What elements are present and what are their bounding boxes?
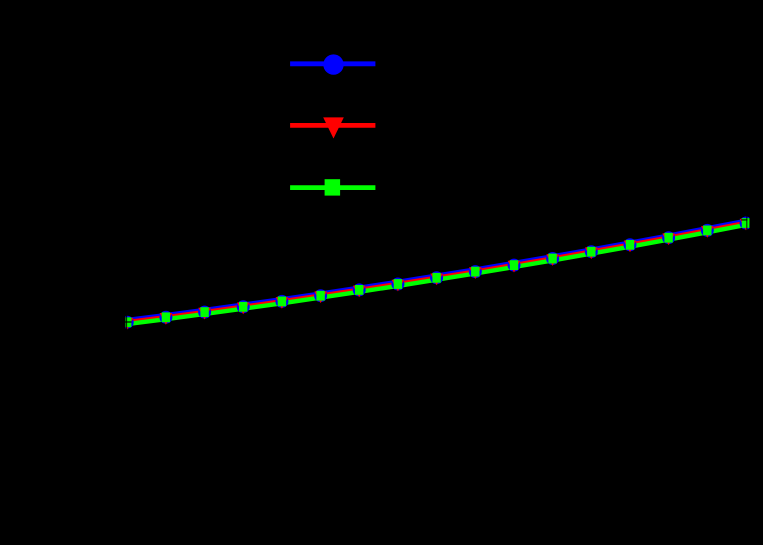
data point 1: red triangle-down marker bbox=[121, 318, 134, 330]
data point 6: green square marker bbox=[316, 291, 324, 301]
data point 6: blue circle marker bbox=[314, 289, 327, 302]
data point 5: green square marker bbox=[278, 297, 286, 307]
right y-axis tick mark bbox=[741, 219, 747, 220]
red data series line bbox=[127, 223, 746, 322]
data point 14: green square marker bbox=[626, 240, 634, 250]
data point 12: red triangle-down marker bbox=[546, 254, 559, 266]
data point 17: green square marker bbox=[742, 218, 750, 228]
data point 3: green square marker bbox=[200, 307, 208, 317]
left y-axis tick mark bbox=[125, 321, 131, 322]
data point 17: blue circle marker bbox=[740, 217, 753, 230]
left axis spine overlay bbox=[125, 310, 128, 332]
data point 7: blue circle marker bbox=[353, 283, 366, 296]
data point 11: blue circle marker bbox=[508, 259, 521, 272]
data point 5: blue circle marker bbox=[275, 295, 288, 308]
data point 11: red triangle-down marker bbox=[508, 261, 521, 273]
data point 9: green square marker bbox=[432, 273, 440, 283]
data point 14: blue circle marker bbox=[624, 238, 637, 251]
data point 1: green square marker bbox=[123, 317, 131, 327]
data point 9: blue circle marker bbox=[430, 271, 443, 284]
data point 7: green square marker bbox=[355, 285, 363, 295]
data point 17: red triangle-down marker bbox=[740, 219, 753, 231]
data point 3: red triangle-down marker bbox=[198, 308, 211, 320]
data point 3: blue circle marker bbox=[198, 306, 211, 319]
data point 7: red triangle-down marker bbox=[353, 286, 366, 298]
data point 2: green square marker bbox=[162, 312, 170, 322]
legend entry 1: blue line bbox=[290, 61, 375, 66]
data point 16: red triangle-down marker bbox=[701, 226, 714, 238]
data point 8: red triangle-down marker bbox=[392, 280, 405, 292]
data point 15: green square marker bbox=[664, 233, 672, 243]
legend entry 2: red line bbox=[290, 123, 375, 128]
data point 15: blue circle marker bbox=[662, 231, 675, 244]
data point 10: red triangle-down marker bbox=[469, 267, 482, 279]
data point 6: red triangle-down marker bbox=[314, 291, 327, 303]
data point 4: green square marker bbox=[239, 302, 247, 312]
data point 10: green square marker bbox=[471, 267, 479, 277]
legend entry 3: green line bbox=[290, 185, 375, 190]
data point 13: blue circle marker bbox=[585, 245, 598, 258]
legend entry 1: blue circle marker bbox=[323, 54, 343, 74]
data point 13: red triangle-down marker bbox=[585, 247, 598, 259]
data point 13: green square marker bbox=[587, 247, 595, 257]
data point 2: blue circle marker bbox=[159, 311, 172, 324]
legend entry 2: red triangle-down marker bbox=[323, 117, 344, 138]
data point 11: green square marker bbox=[510, 260, 518, 270]
data point 14: red triangle-down marker bbox=[624, 241, 637, 253]
data point 10: blue circle marker bbox=[469, 265, 482, 278]
data point 9: red triangle-down marker bbox=[430, 274, 443, 286]
green data series line bbox=[127, 225, 746, 324]
data point 2: red triangle-down marker bbox=[160, 313, 173, 325]
right axis spine overlay bbox=[745, 207, 748, 233]
blue data series line bbox=[127, 221, 746, 320]
data point 1: blue circle marker bbox=[121, 316, 134, 329]
data point 16: green square marker bbox=[703, 226, 711, 236]
data point 5: red triangle-down marker bbox=[276, 297, 289, 309]
legend entry 3: green square marker bbox=[325, 179, 341, 195]
data point 8: green square marker bbox=[394, 279, 402, 289]
data point 4: red triangle-down marker bbox=[237, 303, 250, 315]
data point 16: blue circle marker bbox=[701, 224, 714, 237]
data point 15: red triangle-down marker bbox=[662, 233, 675, 245]
data point 12: green square marker bbox=[548, 254, 556, 264]
data point 12: blue circle marker bbox=[546, 252, 559, 265]
data point 8: blue circle marker bbox=[391, 278, 404, 291]
data point 4: blue circle marker bbox=[237, 300, 250, 313]
